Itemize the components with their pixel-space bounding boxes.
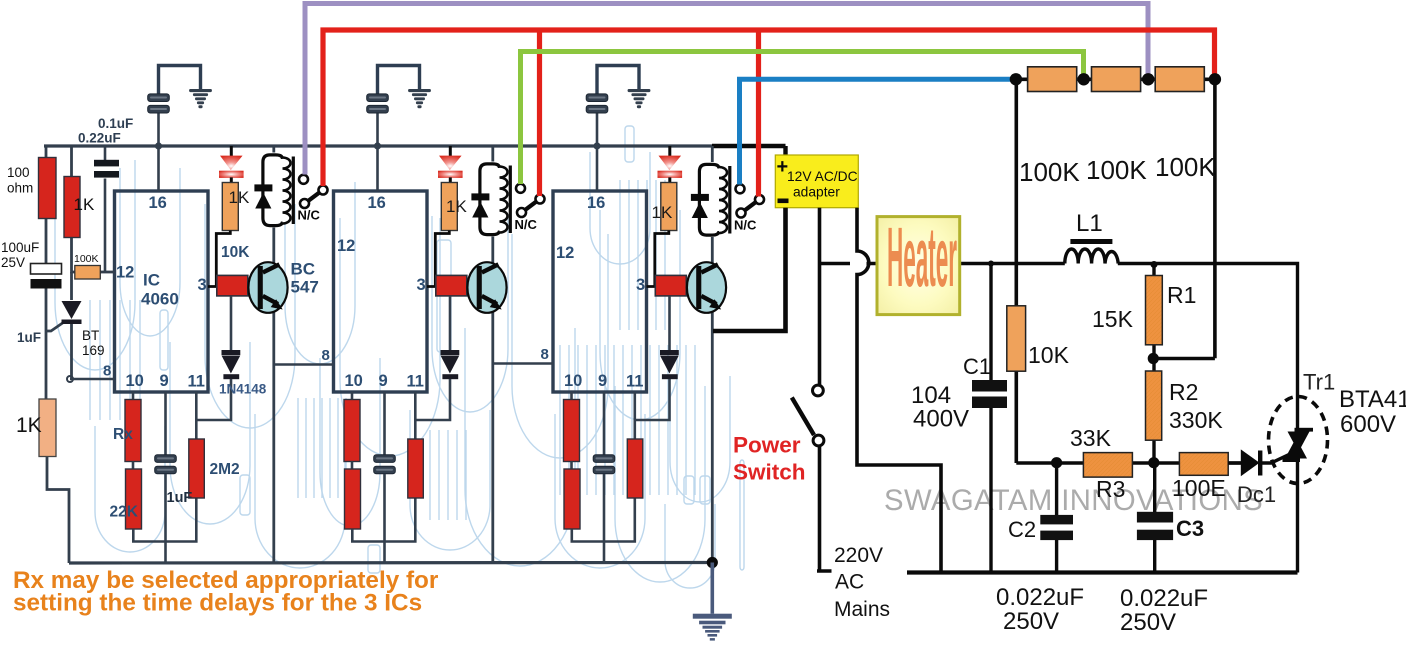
svg-text:400V: 400V [913, 406, 969, 433]
svg-text:12V AC/DC: 12V AC/DC [787, 169, 858, 184]
svg-text:25V: 25V [1, 255, 25, 270]
svg-text:C1: C1 [963, 354, 991, 379]
svg-text:0.22uF: 0.22uF [78, 131, 121, 146]
svg-text:220V: 220V [834, 544, 883, 567]
svg-text:Dc1: Dc1 [1237, 482, 1276, 507]
svg-text:4060: 4060 [141, 290, 179, 309]
svg-text:100K: 100K [1019, 157, 1080, 187]
svg-text:100K: 100K [74, 253, 99, 265]
svg-text:547: 547 [291, 278, 319, 297]
svg-text:15K: 15K [1092, 306, 1134, 332]
svg-text:22K: 22K [110, 504, 139, 521]
svg-text:8: 8 [322, 347, 330, 364]
svg-text:10K: 10K [221, 244, 250, 261]
svg-text:1K: 1K [652, 203, 673, 222]
svg-text:0.1uF: 0.1uF [98, 116, 133, 131]
svg-text:Power: Power [733, 433, 801, 458]
svg-text:10K: 10K [1028, 342, 1070, 368]
svg-text:1N4148: 1N4148 [219, 382, 267, 397]
svg-text:8: 8 [541, 346, 549, 363]
svg-text:N/C: N/C [298, 208, 321, 223]
svg-text:Tr1: Tr1 [1303, 370, 1335, 395]
svg-text:1K: 1K [16, 414, 42, 437]
svg-text:BC: BC [291, 260, 316, 279]
svg-text:0.022uF: 0.022uF [996, 584, 1084, 611]
svg-text:setting the time delays for th: setting the time delays for the 3 ICs [13, 590, 422, 617]
svg-text:R3: R3 [1096, 476, 1125, 502]
svg-text:IC: IC [143, 271, 160, 290]
svg-text:169: 169 [82, 343, 105, 358]
svg-text:Mains: Mains [834, 598, 890, 621]
svg-text:12: 12 [337, 237, 355, 255]
svg-text:R2: R2 [1169, 379, 1198, 405]
svg-text:L1: L1 [1076, 210, 1103, 237]
svg-text:330K: 330K [1169, 407, 1223, 433]
svg-text:adapter: adapter [793, 185, 840, 200]
svg-text:1K: 1K [446, 197, 467, 216]
svg-text:100K: 100K [1155, 152, 1216, 182]
svg-text:1uF: 1uF [167, 490, 193, 506]
svg-text:C2: C2 [1008, 517, 1036, 542]
svg-text:ohm: ohm [7, 181, 33, 196]
svg-text:Heater: Heater [887, 211, 957, 305]
svg-text:8: 8 [103, 363, 111, 380]
svg-text:12: 12 [556, 244, 574, 262]
svg-text:BTA41: BTA41 [1339, 386, 1406, 413]
svg-text:N/C: N/C [734, 218, 757, 233]
svg-text:33K: 33K [1070, 425, 1112, 451]
svg-text:600V: 600V [1340, 411, 1396, 438]
svg-text:12: 12 [116, 264, 134, 282]
svg-text:250V: 250V [1003, 608, 1059, 635]
svg-text:100E: 100E [1172, 475, 1226, 501]
svg-text:100uF: 100uF [1, 240, 39, 255]
svg-text:1K: 1K [229, 188, 250, 207]
svg-text:Switch: Switch [733, 460, 806, 485]
svg-text:Rx: Rx [113, 426, 133, 443]
svg-text:100: 100 [7, 165, 30, 180]
svg-text:N/C: N/C [515, 217, 538, 232]
svg-text:2M2: 2M2 [210, 461, 240, 478]
svg-text:1uF: 1uF [17, 330, 41, 345]
svg-text:C3: C3 [1176, 516, 1204, 541]
svg-text:AC: AC [835, 571, 864, 594]
svg-text:0.022uF: 0.022uF [1120, 585, 1208, 612]
svg-text:1K: 1K [74, 195, 95, 214]
svg-text:250V: 250V [1120, 609, 1176, 636]
svg-text:BT: BT [82, 328, 99, 343]
svg-text:100K: 100K [1086, 155, 1147, 185]
svg-text:R1: R1 [1167, 282, 1196, 308]
